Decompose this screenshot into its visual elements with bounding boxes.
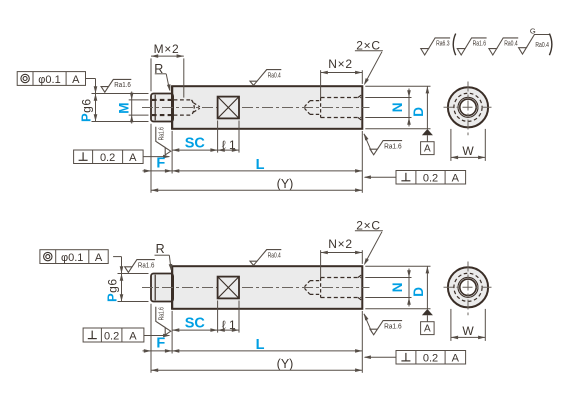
svg-text:φ0.1: φ0.1 <box>61 252 83 264</box>
svg-text:Ra6.3: Ra6.3 <box>436 39 450 48</box>
svg-text:A: A <box>95 252 103 264</box>
concentricity tolerance frame (top) <box>17 72 85 86</box>
hidden tapped hole N (right end) <box>321 97 362 99</box>
svg-text:A: A <box>452 353 460 365</box>
svg-text:A: A <box>452 173 460 185</box>
end view circle (top) <box>448 87 488 127</box>
svg-text:0.2: 0.2 <box>423 173 438 185</box>
dimension N (hole dia, top) <box>365 97 411 99</box>
svg-text:A: A <box>424 144 431 155</box>
roughness Ra1.6 (near step, top) <box>101 79 131 92</box>
chamfer dashes at hole opening <box>358 275 361 300</box>
svg-text:N×2: N×2 <box>328 237 352 251</box>
hidden tapped hole N (right end) <box>321 277 362 279</box>
svg-text:A: A <box>72 74 80 86</box>
chamfer dashes at hole opening <box>358 95 361 120</box>
svg-text:SC: SC <box>185 136 206 152</box>
dimension D (body dia, top) with datum A <box>365 85 430 87</box>
svg-text:M: M <box>116 103 131 114</box>
parenthesis close <box>549 34 551 56</box>
concentricity tolerance frame (bottom) <box>40 250 108 264</box>
hidden tapped hole M (left end) <box>152 99 172 101</box>
svg-text:0.2: 0.2 <box>423 353 438 365</box>
svg-text:A: A <box>129 152 137 164</box>
dimension P g6 (step dia, top) <box>92 93 149 95</box>
svg-text:Ra1.6: Ra1.6 <box>157 307 166 320</box>
leader from perpendicularity frame (left, bottom) <box>144 335 169 337</box>
general roughness note Ra1.6 <box>457 38 486 55</box>
extension lines (bottom, lower dims) <box>150 304 152 373</box>
shaft body <box>172 86 362 129</box>
svg-text:0.2: 0.2 <box>104 330 119 342</box>
leader from concentricity frame <box>86 78 96 80</box>
svg-text:F: F <box>156 155 165 171</box>
general roughness note Ra0.4 <box>489 38 518 55</box>
extension lines (top, lower dims) <box>150 124 152 193</box>
leader from concentricity frame (bottom) <box>113 256 121 258</box>
roughness Ra0.4 on body (top) <box>250 70 281 86</box>
leader from perpendicularity frame (right, bottom) <box>365 356 396 358</box>
end view crosshair (top) <box>444 106 493 108</box>
svg-text:φ0.1: φ0.1 <box>38 74 60 86</box>
roughness Ra0.4 on body (bottom) <box>250 250 281 266</box>
svg-text:0.2: 0.2 <box>100 152 115 164</box>
svg-text:R: R <box>156 242 165 256</box>
svg-text:Ra1.6: Ra1.6 <box>384 141 402 150</box>
dimension M (thread dia, top) <box>129 99 149 101</box>
general roughness note G/Ra0.4 <box>519 35 550 55</box>
dimension D (body dia, bottom) with datum A <box>365 265 430 267</box>
dimension P g6 (step dia, bottom) <box>118 273 149 275</box>
centerline <box>142 107 370 109</box>
roughness Ra1.6 with leader (right end, bottom) <box>364 314 372 333</box>
roughness Ra1.6 rotated (end face, bottom) <box>156 307 171 335</box>
end view circle (bottom) <box>448 267 488 307</box>
svg-text:Pg6: Pg6 <box>104 278 119 302</box>
perpendicularity frame (right, bottom) <box>396 351 466 365</box>
end view crosshair (bottom) <box>444 286 493 288</box>
general roughness note Ra6.3 <box>421 38 450 55</box>
svg-text:F: F <box>156 335 165 351</box>
machining-area square marker SC <box>218 277 239 299</box>
svg-text:W: W <box>462 144 474 158</box>
svg-text:Pg6: Pg6 <box>79 98 94 122</box>
svg-text:(Y): (Y) <box>277 177 294 191</box>
svg-text:Ra1.6: Ra1.6 <box>384 321 402 330</box>
roughness Ra1.6 rotated (end face, top) <box>156 127 171 155</box>
svg-text:M×2: M×2 <box>154 42 180 56</box>
leader from perpendicularity frame (right, top) <box>365 176 396 178</box>
svg-text:SC: SC <box>185 316 206 332</box>
svg-text:Ra0.4: Ra0.4 <box>268 70 281 79</box>
dimension N (hole dia, bottom) <box>365 277 411 279</box>
svg-text:D: D <box>411 287 426 297</box>
leader from perpendicularity frame (left, top) <box>143 156 169 158</box>
perpendicularity frame (right, top) <box>396 171 466 185</box>
roughness Ra1.6 with leader (right end, top) <box>364 134 372 153</box>
dimension W (bottom) <box>450 309 452 341</box>
svg-text:N: N <box>390 103 405 113</box>
svg-text:G: G <box>530 27 536 36</box>
svg-text:N×2: N×2 <box>328 57 352 71</box>
svg-text:A: A <box>129 330 137 342</box>
svg-text:N: N <box>390 283 405 293</box>
svg-text:Ra1.6: Ra1.6 <box>157 127 166 140</box>
stepped end (pilot dia P) <box>151 274 173 302</box>
svg-text:Ra0.4: Ra0.4 <box>535 40 549 49</box>
stepped end (pilot dia P) <box>151 94 173 122</box>
svg-text:(Y): (Y) <box>277 357 294 371</box>
shaft body <box>172 266 362 309</box>
svg-text:Ra0.4: Ra0.4 <box>268 250 281 259</box>
perpendicularity frame (left, bottom) <box>83 328 144 342</box>
svg-text:Ra1.6: Ra1.6 <box>138 260 155 269</box>
centerline <box>142 287 370 289</box>
perpendicularity frame (left, top) <box>74 150 144 164</box>
roughness Ra1.6 (near step, bottom) <box>125 260 155 273</box>
parenthesis open <box>453 34 455 56</box>
svg-text:A: A <box>424 324 431 335</box>
svg-text:Ra1.6: Ra1.6 <box>114 80 131 89</box>
svg-text:D: D <box>411 107 426 117</box>
svg-text:W: W <box>462 324 474 338</box>
machining-area square marker SC <box>218 97 239 119</box>
svg-text:Ra0.4: Ra0.4 <box>504 39 518 48</box>
dimension W (top) <box>450 129 452 161</box>
svg-text:Ra1.6: Ra1.6 <box>473 39 487 48</box>
